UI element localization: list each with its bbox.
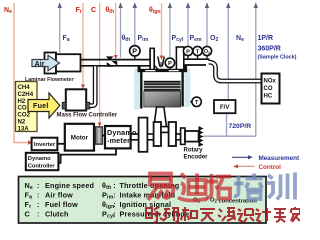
pipe exhaust top wall [185,58,210,60]
air filter box [45,53,57,74]
connecting rod [154,107,167,127]
svg-text:Mass Flow Controller: Mass Flow Controller [57,112,118,118]
svg-text:Encoder: Encoder [184,155,209,161]
svg-text:Ne: Ne [4,7,12,15]
svg-text::: : [113,191,116,200]
wire 720P/R line into F/V [226,113,228,136]
svg-text:Inverter: Inverter [34,142,56,148]
wire O2 measurement line [205,2,209,46]
motor box [65,124,94,151]
legend entry Pcyl [102,209,192,219]
svg-text::: : [113,209,116,218]
watermark big char 3 (tuo) [207,174,232,199]
watermark big char 1 (yi) [148,174,173,201]
arrow Fuel [28,93,60,118]
rotary encoder body [185,131,199,142]
svg-text:Ne: Ne [236,35,244,43]
wire Pim measurement line [133,2,137,45]
svg-text:-meter: -meter [107,136,130,145]
svg-text::: : [37,200,40,209]
gauge Pem [183,46,192,59]
legend entry theta-th [102,181,179,191]
svg-text:Fa: Fa [63,35,70,43]
svg-text:θth: θth [122,35,131,43]
legend entry Pim [102,191,175,201]
svg-text:θign: θign [149,7,161,15]
flywheel [139,118,148,152]
engine water jacket right [184,69,190,108]
legend box [19,177,267,224]
svg-text:Control: Control [259,164,282,171]
svg-text:Pcyl: Pcyl [172,35,184,43]
clutch coupling [94,127,105,144]
legend entry Fa [25,191,74,201]
legend entry O2 [193,198,257,205]
dynamometer box [105,126,137,148]
svg-text:Air: Air [35,59,45,68]
svg-text::: : [37,191,40,200]
svg-text:Rotary: Rotary [184,148,204,154]
piston ring band [144,83,181,91]
F/V converter box [214,100,236,113]
MFC left fitting [62,102,66,109]
svg-text:Fr: Fr [76,7,82,15]
gauge Pim [130,46,140,60]
wire theta-th measurement line [118,2,122,57]
piston crown [144,81,181,83]
svg-text:NOx: NOx [264,79,277,85]
encoder coupling [181,128,185,144]
wire intake pipe top wall [81,59,151,61]
wire Ne measurement line from F/V [226,2,230,100]
engine cylinder wall left [140,69,142,108]
svg-text:HC: HC [264,94,273,100]
wire Fr control line [81,3,85,89]
crank pin [161,127,169,133]
svg-text:Controller: Controller [28,164,56,170]
wire theta-th control line [114,3,118,60]
wire Pem measurement line [186,2,190,46]
svg-text:Air flow: Air flow [45,191,73,200]
wire Fa measurement line [58,2,62,52]
svg-text:Measurement: Measurement [259,155,300,162]
fuel gas list box [16,82,38,133]
crank web right [169,122,176,146]
valve throttle butterfly [106,56,117,66]
svg-text::: : [113,181,116,190]
pipe exhaust elbow to analyzer [209,62,262,81]
wire theta-ign control line [160,3,164,60]
svg-text::: : [113,200,116,209]
gauge T exhaust [193,46,202,59]
svg-text:O2: O2 [204,49,210,55]
watermark big char 5 (xun) [267,173,296,200]
svg-text:P: P [186,49,190,55]
gauge T coolant [190,97,201,106]
laminar flowmeter body [56,54,81,71]
gauge O2 sensor [202,46,211,59]
svg-text:Fuel: Fuel [33,101,49,110]
gauge Pcyl [165,58,174,70]
engine exhaust riser [176,47,185,69]
mass flow controller box [66,89,86,110]
MFC right fitting [86,102,90,109]
wire intake pipe bottom wall [81,65,151,67]
wire inverter to motor [57,143,64,145]
svg-text:CO: CO [264,86,273,92]
crank shaft segment [147,134,153,140]
svg-text:O2: O2 [210,35,218,43]
svg-text:F/V: F/V [220,105,229,111]
wire Pcyl measurement line [168,2,172,57]
engine cylinder wall right [181,69,183,106]
svg-text:T: T [196,49,200,55]
emission analyzer NOx CO HC box [262,74,280,104]
svg-text:Engine speed: Engine speed [45,181,94,190]
watermark big char 4 (pei) [234,174,263,200]
wire sample clock measurement line [254,2,258,136]
svg-text:Pem: Pem [190,35,203,43]
inverter box [32,138,58,151]
wire encoder output line [203,135,256,137]
legend entry C [25,209,69,218]
svg-text:Dynamo: Dynamo [28,156,51,162]
spark plug [158,57,164,68]
svg-text:Clutch: Clutch [45,209,69,218]
legend entry Ne [25,181,95,191]
crank shaft to encoder [176,134,181,140]
legend arrow Measurement [232,155,300,162]
encoder mount hatching [199,127,203,147]
svg-text:13A: 13A [18,125,30,132]
wire Ne control line [14,3,33,145]
legend entry theta-ign [102,200,171,210]
legend entry Fr [25,200,79,210]
pipe fuel line to intake [90,66,95,106]
svg-text:θth: θth [106,7,115,15]
wire C control line [98,3,102,127]
svg-text::: : [37,209,40,218]
svg-text:(Sample Clock): (Sample Clock) [258,55,297,61]
piston skirt [144,91,181,107]
crankshaft dynamo shaft [131,134,139,140]
pipe exhaust bottom wall [185,64,206,66]
svg-text:1P/R: 1P/R [258,35,274,42]
engine water jacket left [134,69,140,110]
watermark big char 2 (di) [178,174,208,201]
svg-text:720P/R: 720P/R [229,123,252,130]
watermark small text row [146,207,300,223]
svg-text:Fuel flow: Fuel flow [45,200,78,209]
svg-text:360P/R: 360P/R [258,46,281,53]
svg-text:Motor: Motor [71,135,89,142]
svg-text:C: C [91,7,96,14]
wire dynamo controller to dynamometer [58,148,116,162]
legend arrow Control [233,164,281,171]
svg-text::: : [37,181,40,190]
engine intake riser [149,48,158,69]
svg-text:C: C [25,209,30,218]
svg-text:T: T [195,100,199,106]
svg-text:Pim: Pim [138,35,149,43]
label Rotary Encoder [184,148,209,161]
svg-text:P: P [132,46,137,55]
svg-text:P: P [168,61,172,67]
dynamo controller box [26,153,59,170]
crank web left [154,122,161,146]
arrow Air [32,55,60,70]
engine head deck [138,65,188,72]
